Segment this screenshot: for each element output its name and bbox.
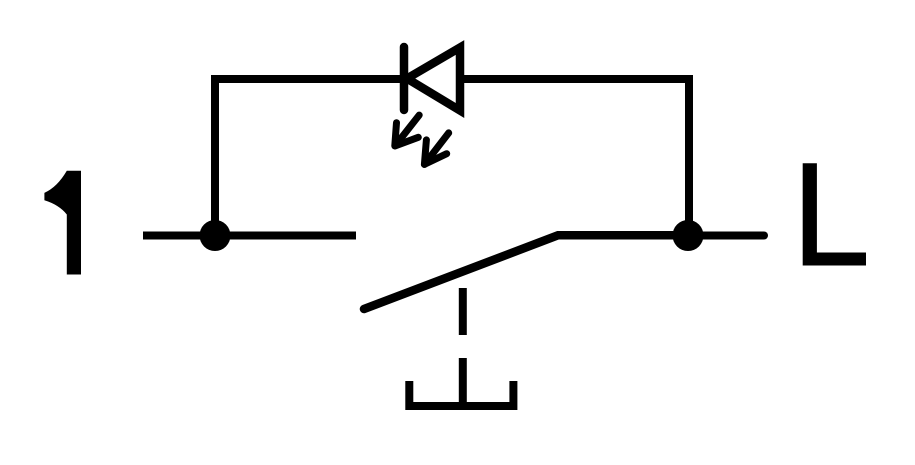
wire left horizontal to terminal 1 <box>143 232 356 240</box>
switch S1 blade <box>364 235 688 309</box>
wire top-left L-shape <box>215 79 404 237</box>
actuator dashed link segment 2 <box>459 358 467 406</box>
wire right horizontal to terminal L <box>688 232 764 240</box>
node junction right <box>673 220 704 251</box>
push-button actuator bracket <box>409 381 513 406</box>
LED D1 triangle <box>407 48 460 111</box>
wire top-right L-shape <box>459 79 689 237</box>
LED D1 cathode bar <box>400 47 409 110</box>
node junction left <box>200 220 231 251</box>
terminal label L <box>803 163 866 265</box>
LED light arrow 2 <box>424 133 448 165</box>
actuator dashed link segment 1 <box>459 288 467 335</box>
terminal label 1 <box>44 171 81 275</box>
LED light arrow 1 <box>395 115 419 146</box>
